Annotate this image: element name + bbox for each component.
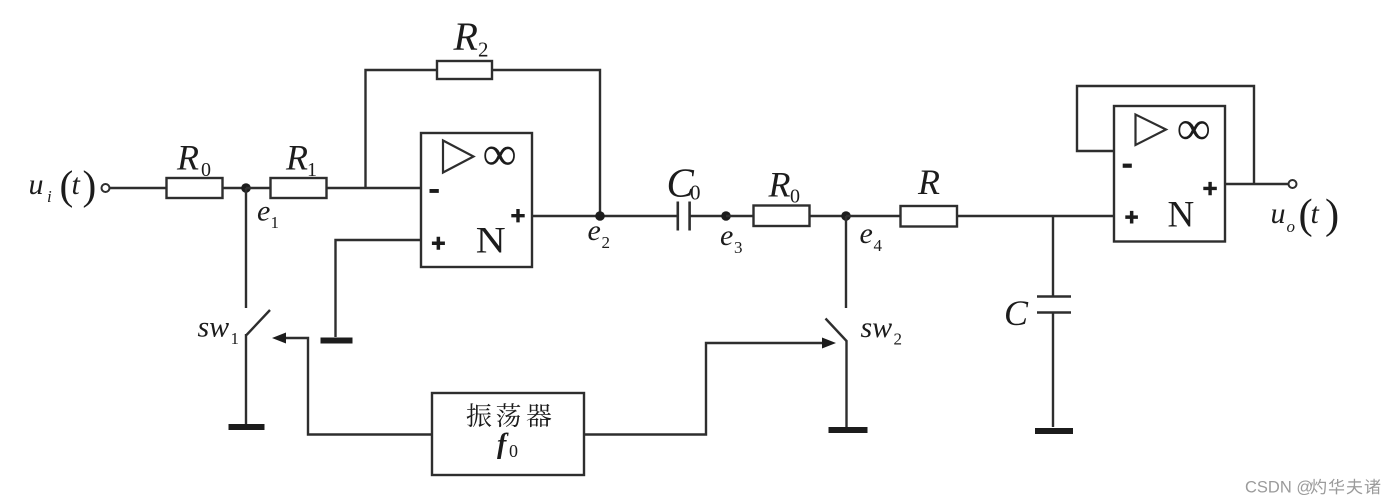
ground (sw1) (229, 424, 265, 430)
svg-text:2: 2 (602, 233, 611, 252)
op-amp U1 plus input label (432, 237, 445, 250)
ground (capacitor C) (1035, 428, 1073, 434)
svg-text:1: 1 (271, 213, 280, 232)
svg-text:R: R (453, 14, 478, 59)
arrowhead to sw1 (272, 333, 286, 344)
wire e3 to R0b (726, 215, 754, 217)
svg-text:t: t (72, 168, 81, 201)
svg-text:R: R (285, 138, 308, 178)
node e1 (241, 183, 251, 193)
ground (U1 plus input) (321, 338, 353, 344)
wire e4 to switch sw2 (845, 216, 847, 308)
svg-text:o: o (1287, 217, 1296, 236)
wire sw1 to ground (245, 334, 247, 424)
svg-text:R: R (768, 165, 791, 205)
wire R0 to e1 (223, 187, 247, 189)
svg-text:u: u (1271, 197, 1286, 230)
svg-text:0: 0 (690, 181, 701, 205)
output terminal circle (1289, 180, 1297, 188)
oscillator label 振荡器 (467, 403, 492, 427)
resistor R0 (167, 178, 223, 198)
wire R2 to e2 (492, 70, 600, 216)
svg-text:N: N (1168, 195, 1195, 236)
wire C0 to e3 (691, 215, 727, 217)
op-amp U2 box (1114, 106, 1225, 242)
watermark CSDN (1245, 479, 1380, 497)
wire U1 plus input to ground (336, 240, 422, 337)
switch sw2 blade (826, 319, 848, 342)
svg-text:0: 0 (509, 441, 518, 461)
resistor R1 (271, 178, 327, 198)
op-amp U2 triangle (1136, 115, 1167, 146)
op-amp U2 minus label (1123, 164, 1132, 168)
svg-text:R: R (176, 138, 199, 178)
svg-text:u: u (29, 168, 44, 201)
svg-text:3: 3 (734, 238, 743, 257)
svg-text:∞: ∞ (483, 128, 517, 181)
wire e4 to R (846, 215, 901, 217)
svg-text:t: t (1311, 197, 1320, 230)
svg-text:R: R (917, 162, 940, 202)
resistor R0 (second) (754, 206, 810, 227)
svg-text:sw: sw (198, 311, 230, 344)
capacitor C0 (678, 202, 690, 231)
svg-text:CSDN @: CSDN @ (1245, 479, 1313, 497)
svg-text:1: 1 (307, 159, 317, 181)
svg-text:N: N (476, 220, 506, 261)
svg-text:2: 2 (478, 38, 489, 62)
wire e1 to switch sw1 (245, 188, 247, 308)
wire U2 feedback loop (1077, 86, 1254, 184)
node e3 (721, 211, 731, 221)
svg-text:): ) (1325, 191, 1339, 238)
capacitor C (1037, 297, 1071, 313)
node e2 (595, 211, 605, 221)
wire R1 to op-amp U1 minus input (327, 187, 422, 189)
input terminal circle (102, 184, 110, 192)
wire R2 branch up (366, 70, 438, 188)
wire C to ground (1052, 313, 1054, 427)
wire R0b to e4 (810, 215, 847, 217)
wire sw2 to ground (845, 341, 847, 427)
wire oscillator to sw1 arrow (282, 338, 432, 435)
svg-text:i: i (47, 187, 52, 206)
op-amp U2 output plus label (1203, 182, 1217, 195)
wire e1 to R1 (246, 187, 271, 189)
op-amp U1 box (421, 133, 532, 267)
svg-text:4: 4 (874, 236, 883, 255)
op-amp U1 triangle (443, 141, 474, 173)
wire C branch down (1052, 216, 1054, 296)
op-amp U1 output plus label (511, 209, 524, 222)
svg-text:∞: ∞ (1177, 102, 1211, 155)
wire input to R0 (110, 187, 167, 189)
svg-text:e: e (257, 195, 270, 228)
switch sw1 blade (247, 310, 271, 335)
ground (sw2) (829, 427, 868, 433)
oscillator box (432, 393, 584, 475)
svg-text:sw: sw (861, 311, 893, 344)
resistor R (901, 206, 958, 227)
svg-text:e: e (860, 217, 873, 250)
arrowhead to sw2 (822, 338, 836, 349)
wire U2 output to terminal (1225, 183, 1289, 185)
svg-text:0: 0 (790, 186, 800, 208)
svg-text:1: 1 (231, 329, 240, 348)
resistor R2 (437, 61, 492, 79)
svg-text:0: 0 (201, 159, 211, 181)
wire R to op-amp U2 plus input (957, 215, 1114, 217)
svg-text:2: 2 (894, 330, 903, 349)
node e4 (841, 211, 851, 221)
svg-text:f: f (497, 429, 509, 460)
wire oscillator to sw2 arrow (584, 343, 824, 435)
svg-text:): ) (83, 162, 97, 209)
op-amp U2 plus input label (1125, 211, 1138, 224)
svg-text:e: e (588, 214, 601, 247)
wire U1 output to C0 (532, 215, 677, 217)
svg-text:e: e (720, 219, 733, 252)
svg-text:C: C (1004, 293, 1029, 333)
op-amp U1 minus label (430, 189, 439, 193)
